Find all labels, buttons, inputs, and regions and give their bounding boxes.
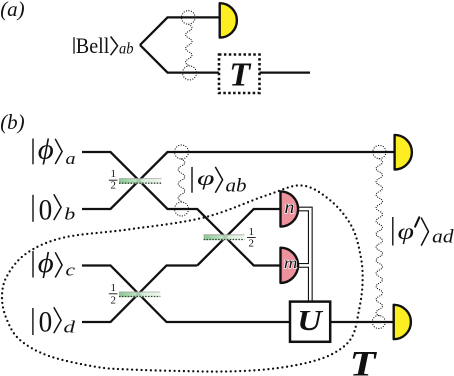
- label |0>_d: [33, 305, 76, 338]
- dotted circle on a-line (part b): [175, 145, 189, 159]
- wire b to BS2 and through to n: [197, 209, 280, 266]
- svg-text:ab: ab: [119, 41, 134, 58]
- svg-text:ϕ: ϕ: [38, 248, 54, 279]
- svg-text:T: T: [229, 57, 251, 94]
- svg-text:2: 2: [110, 294, 116, 306]
- label 1/2 of BS3: [109, 282, 118, 306]
- classical double line from m: [297, 263, 310, 268]
- svg-text:(a): (a): [0, 0, 25, 21]
- detector Da yellow (part a): [220, 3, 237, 37]
- detector D2 yellow bottom right (part b): [394, 305, 411, 339]
- label |varphi'>_ad: [393, 217, 454, 248]
- svg-text:0: 0: [39, 193, 53, 226]
- label |phi>_c: [33, 248, 76, 280]
- svg-text:0: 0: [39, 305, 53, 338]
- wire a-upper (part a): [140, 17, 220, 45]
- dotted circle on d-line right (part b): [372, 316, 385, 329]
- wire d input through BS3 up to BS2: [82, 266, 197, 323]
- wire a input and diagonal through BS1: [82, 152, 281, 266]
- dotted region T boundary (part b): [2, 185, 363, 371]
- svg-text:a: a: [66, 149, 76, 168]
- label |0>_b: [33, 193, 75, 226]
- svg-text:φ: φ: [197, 166, 215, 190]
- beam splitter BS1 bar: [119, 178, 162, 183]
- svg-text:1: 1: [110, 168, 116, 180]
- wavy entanglement line ad (part b): [376, 159, 382, 316]
- svg-text:2: 2: [110, 180, 116, 192]
- svg-text:ϕ: ϕ: [38, 135, 54, 166]
- svg-text:d: d: [64, 317, 76, 336]
- detector m pink: [281, 248, 299, 283]
- svg-text:ad: ad: [432, 227, 454, 248]
- svg-text:1: 1: [110, 282, 116, 294]
- classical double line from n down to U: [297, 209, 310, 302]
- label |phi>_a: [33, 135, 76, 168]
- label 1/2 of BS2: [247, 226, 256, 249]
- detector D1 yellow top right (part b): [395, 135, 412, 170]
- wavy entanglement line ab (part b): [178, 159, 185, 202]
- svg-text:2: 2: [249, 237, 255, 249]
- svg-text:T: T: [350, 344, 378, 376]
- svg-text:(b): (b): [0, 110, 25, 134]
- svg-text:U: U: [297, 306, 324, 337]
- dotted circle on upper wire (part a): [182, 11, 196, 25]
- beam splitter BS2 bar: [204, 234, 245, 240]
- svg-text:c: c: [66, 261, 76, 280]
- beam splitter BS3 bar: [119, 292, 160, 298]
- svg-text:ab: ab: [226, 176, 247, 197]
- svg-text:1: 1: [249, 226, 255, 238]
- dotted circle on lower wire (part a): [183, 66, 197, 80]
- wire from T box to right (part a): [260, 71, 311, 73]
- detector n pink: [281, 191, 299, 226]
- svg-text:m: m: [284, 255, 298, 272]
- T box dotted (part a): [219, 55, 260, 94]
- wire a-lower (part a): [140, 45, 219, 73]
- svg-text:Bell: Bell: [76, 33, 110, 58]
- unitary box U: [290, 302, 330, 342]
- svg-text:φ: φ: [398, 219, 415, 245]
- svg-text:b: b: [64, 205, 75, 224]
- wavy entanglement line (part a): [186, 24, 192, 65]
- dotted circle on b-line (part b): [175, 202, 189, 216]
- dotted circle on a-line right (part b): [373, 145, 386, 158]
- label 1/2 of BS1: [109, 168, 118, 191]
- label |varphi>_ab: [192, 166, 247, 197]
- wire b input and diagonal through BS1, a-line to detector: [82, 152, 394, 209]
- label |Bell>_ab: [74, 33, 134, 58]
- wire c input through BS3: [82, 266, 394, 323]
- svg-text:n: n: [284, 197, 294, 217]
